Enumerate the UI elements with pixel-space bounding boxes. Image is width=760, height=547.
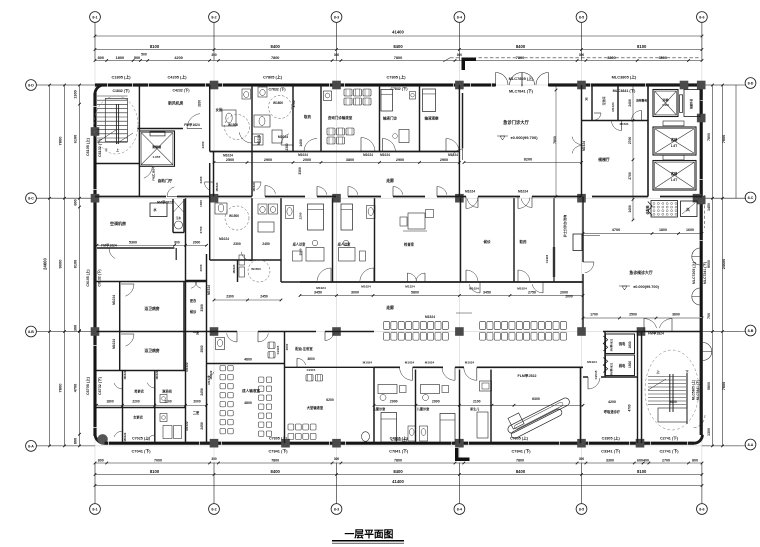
svg-text:C7832 (下): C7832 (下) (268, 87, 285, 92)
svg-text:FM甲1624: FM甲1624 (101, 243, 117, 248)
svg-text:M1022: M1022 (185, 421, 189, 431)
svg-text:C6105 (上): C6105 (上) (85, 137, 90, 156)
svg-text:7800: 7800 (722, 135, 726, 143)
svg-text:3700: 3700 (292, 100, 296, 107)
svg-text:3300: 3300 (606, 459, 614, 463)
svg-text:4800: 4800 (244, 401, 252, 405)
svg-text:护士分诊台/咨询: 护士分诊台/咨询 (562, 215, 567, 238)
svg-text:成人诊室: 成人诊室 (338, 242, 352, 247)
svg-text:8-2: 8-2 (211, 15, 216, 19)
svg-text:风: 风 (585, 96, 588, 101)
svg-text:24600: 24600 (43, 258, 48, 270)
svg-text:取药: 取药 (304, 114, 312, 119)
svg-text:8-3: 8-3 (334, 507, 339, 511)
svg-text:FLM甲J522: FLM甲J522 (518, 373, 537, 378)
svg-text:2200: 2200 (132, 399, 140, 403)
svg-text:1.6T: 1.6T (671, 178, 677, 182)
svg-text:2900: 2900 (264, 158, 272, 162)
svg-text:800: 800 (174, 241, 180, 245)
svg-text:8400: 8400 (393, 44, 403, 49)
svg-text:M1024: M1024 (316, 286, 326, 290)
svg-text:7800: 7800 (58, 136, 63, 146)
svg-text:2000: 2000 (199, 264, 203, 271)
svg-text:消梯候: 消梯候 (152, 144, 162, 149)
svg-text:输液观察: 输液观察 (425, 116, 439, 121)
svg-text:C7025 (上): C7025 (上) (132, 435, 151, 440)
svg-text:FM甲0822: FM甲0822 (610, 362, 614, 375)
svg-text:1800: 1800 (628, 341, 632, 348)
svg-text:FM甲1824: FM甲1824 (648, 331, 664, 336)
svg-text:8-B: 8-B (748, 329, 754, 333)
svg-text:2200: 2200 (299, 212, 303, 219)
svg-text:3200: 3200 (198, 100, 202, 107)
svg-text:C3341 (下): C3341 (下) (601, 448, 621, 453)
svg-text:C7841 (下): C7841 (下) (511, 448, 531, 453)
svg-text:污水: 污水 (176, 216, 182, 220)
svg-text:7800: 7800 (394, 56, 402, 60)
svg-text:C4232 (下): C4232 (下) (172, 88, 189, 93)
svg-text:1400: 1400 (628, 205, 632, 213)
svg-text:C6105 (上): C6105 (上) (85, 269, 90, 286)
svg-text:M1024: M1024 (363, 361, 373, 365)
svg-text:急诊候诊大厅: 急诊候诊大厅 (629, 270, 652, 275)
svg-text:800: 800 (98, 56, 104, 60)
svg-text:2900: 2900 (432, 399, 440, 403)
svg-text:3600: 3600 (669, 400, 677, 404)
svg-text:C2741 (下): C2741 (下) (660, 435, 679, 440)
svg-text:5300: 5300 (129, 241, 137, 245)
svg-text:C2015: C2015 (594, 370, 598, 379)
svg-text:C2741 (下): C2741 (下) (659, 448, 679, 453)
svg-text:5800: 5800 (411, 291, 419, 295)
svg-text:2700: 2700 (199, 226, 203, 233)
svg-text:C7841 (下): C7841 (下) (389, 448, 409, 453)
svg-text:800: 800 (692, 459, 698, 463)
svg-text:4700: 4700 (74, 384, 78, 392)
svg-text:8-1: 8-1 (92, 15, 97, 19)
svg-text:2300: 2300 (201, 141, 205, 148)
svg-text:C6132 (下): C6132 (下) (97, 269, 102, 286)
svg-text:M1024: M1024 (232, 264, 236, 273)
svg-text:4200: 4200 (174, 56, 182, 60)
svg-text:FM甲1624: FM甲1624 (184, 122, 200, 127)
svg-text:8400: 8400 (516, 469, 526, 474)
svg-text:M1024: M1024 (257, 135, 261, 145)
svg-text:二更: 二更 (193, 410, 200, 415)
svg-text:更衣: 更衣 (190, 298, 197, 303)
svg-text:C7832 (下): C7832 (下) (390, 86, 407, 91)
svg-text:1450: 1450 (707, 203, 711, 211)
svg-text:M1524: M1524 (620, 122, 629, 126)
svg-text:5800: 5800 (707, 382, 711, 390)
svg-text:8-5: 8-5 (579, 507, 584, 511)
svg-text:M1024: M1024 (465, 190, 475, 194)
svg-text:2500: 2500 (629, 313, 637, 317)
svg-text:M1524: M1524 (425, 315, 435, 319)
svg-text:输液门诊: 输液门诊 (383, 116, 397, 121)
svg-text:2500: 2500 (226, 158, 234, 162)
svg-text:1.05t: 1.05t (662, 103, 669, 107)
svg-text:检查室: 检查室 (404, 242, 415, 247)
svg-text:3000: 3000 (351, 291, 359, 295)
svg-text:1600: 1600 (686, 228, 694, 232)
svg-text:W1500: W1500 (228, 123, 238, 127)
svg-text:客梯: 客梯 (670, 137, 678, 142)
svg-text:6100: 6100 (74, 135, 78, 143)
svg-text:7800: 7800 (707, 133, 711, 141)
svg-text:8-5: 8-5 (579, 15, 584, 19)
svg-text:消梯: 消梯 (662, 97, 668, 102)
svg-text:8400: 8400 (516, 44, 526, 49)
svg-text:M1524: M1524 (207, 285, 211, 295)
svg-text:M1024: M1024 (219, 237, 229, 241)
svg-text:8-D: 8-D (748, 81, 754, 85)
svg-text:M1024: M1024 (448, 153, 458, 157)
svg-text:8-1: 8-1 (92, 507, 97, 511)
svg-text:M1024: M1024 (112, 295, 116, 305)
svg-text:8-6: 8-6 (699, 15, 704, 19)
svg-text:9000: 9000 (58, 259, 63, 269)
svg-text:C2115: C2115 (307, 368, 316, 372)
svg-text:2700: 2700 (628, 137, 632, 145)
svg-text:FM甲0822: FM甲0822 (157, 200, 173, 205)
svg-text:8100: 8100 (637, 469, 647, 474)
svg-text:M1324: M1324 (405, 285, 415, 289)
svg-text:M1024: M1024 (380, 153, 390, 157)
svg-text:C7805 (上): C7805 (上) (386, 74, 406, 79)
svg-text:信报箱: 信报箱 (645, 205, 650, 214)
svg-text:水: 水 (152, 207, 157, 212)
svg-text:±0.000(99.700): ±0.000(99.700) (633, 285, 659, 289)
svg-text:41400: 41400 (392, 479, 404, 484)
svg-text:浴卫病房: 浴卫病房 (144, 306, 159, 311)
svg-text:MLC7205 (上): MLC7205 (上) (691, 262, 696, 284)
svg-text:2300: 2300 (199, 176, 203, 183)
svg-text:8100: 8100 (150, 44, 160, 49)
svg-text:新生儿: 新生儿 (470, 406, 479, 411)
svg-text:2900: 2900 (396, 158, 404, 162)
svg-text:2000: 2000 (193, 241, 201, 245)
svg-text:2100: 2100 (473, 399, 481, 403)
svg-text:3450: 3450 (483, 291, 491, 295)
svg-text:W1800: W1800 (273, 101, 283, 105)
svg-text:男更衣: 男更衣 (134, 389, 144, 394)
svg-text:C7041 (下): C7041 (下) (131, 448, 151, 453)
svg-text:8-D: 8-D (28, 83, 34, 87)
svg-text:8100: 8100 (637, 44, 647, 49)
svg-text:8200: 8200 (524, 158, 532, 162)
svg-text:8-4: 8-4 (457, 15, 462, 19)
svg-text:M1024: M1024 (465, 361, 475, 365)
svg-text:污洗间: 污洗间 (601, 97, 606, 106)
svg-text:9000: 9000 (707, 260, 711, 268)
svg-text:4700: 4700 (628, 404, 632, 411)
svg-text:新风机房: 新风机房 (168, 101, 183, 106)
svg-text:300: 300 (211, 457, 217, 461)
svg-text:7800: 7800 (271, 459, 279, 463)
svg-text:2300: 2300 (285, 143, 289, 150)
svg-text:弱电: 弱电 (619, 363, 626, 368)
svg-text:急诊门诊大厅: 急诊门诊大厅 (503, 119, 529, 126)
svg-text:8400: 8400 (271, 44, 281, 49)
svg-text:2900: 2900 (440, 158, 448, 162)
svg-text:大堂输液室: 大堂输液室 (307, 405, 324, 410)
svg-text:W1500: W1500 (251, 267, 261, 271)
svg-text:8400: 8400 (271, 469, 281, 474)
svg-text:呼吸道诊疗: 呼吸道诊疗 (604, 409, 621, 414)
svg-text:M1524: M1524 (582, 141, 586, 151)
svg-text:8-4: 8-4 (457, 507, 462, 511)
svg-text:8-A: 8-A (748, 443, 754, 447)
svg-text:2450: 2450 (260, 295, 268, 299)
svg-text:8-3: 8-3 (334, 15, 339, 19)
svg-text:强电: 强电 (619, 341, 626, 346)
svg-text:4200: 4200 (608, 400, 616, 404)
svg-text:2450: 2450 (262, 242, 270, 246)
svg-text:M1022: M1022 (185, 362, 189, 372)
svg-text:成人输液室: 成人输液室 (242, 388, 260, 393)
svg-text:600: 600 (74, 199, 78, 205)
svg-text:M1022: M1022 (123, 432, 127, 441)
svg-text:C1805 (上): C1805 (上) (111, 74, 131, 79)
svg-text:M1024: M1024 (587, 360, 597, 364)
svg-text:8-C: 8-C (28, 197, 34, 201)
svg-text:M1024: M1024 (112, 339, 116, 349)
svg-text:M1022: M1022 (123, 370, 127, 379)
svg-text:C1832 (下): C1832 (下) (112, 88, 129, 93)
svg-text:2100: 2100 (164, 399, 172, 403)
svg-text:M1022: M1022 (155, 370, 159, 379)
svg-text:3450: 3450 (314, 291, 322, 295)
svg-text:1800: 1800 (106, 399, 114, 403)
svg-text:3500: 3500 (299, 248, 303, 255)
svg-text:1400: 1400 (299, 139, 303, 147)
svg-text:7800: 7800 (58, 383, 63, 393)
svg-text:M1024: M1024 (405, 361, 415, 365)
svg-text:女更衣: 女更衣 (133, 415, 143, 420)
svg-text:2700: 2700 (628, 172, 632, 180)
svg-text:空调机房: 空调机房 (110, 220, 126, 226)
svg-text:1700: 1700 (590, 313, 598, 317)
svg-text:2000: 2000 (303, 158, 311, 162)
svg-text:3600: 3600 (285, 343, 289, 350)
svg-text:M1024: M1024 (361, 285, 371, 289)
svg-text:W1500: W1500 (229, 214, 239, 218)
svg-text:2300: 2300 (233, 242, 241, 246)
svg-text:M1024: M1024 (363, 153, 373, 157)
svg-text:8100: 8100 (150, 469, 160, 474)
svg-text:8-6: 8-6 (699, 507, 704, 511)
svg-text:候梯厅: 候梯厅 (598, 157, 610, 162)
svg-text:走廊: 走廊 (385, 178, 394, 183)
svg-text:储藏井道: 储藏井道 (689, 99, 693, 110)
svg-text:7800: 7800 (394, 459, 402, 463)
svg-text:一层平面图: 一层平面图 (345, 529, 394, 541)
svg-text:M1024: M1024 (517, 287, 527, 291)
svg-text:800: 800 (98, 459, 104, 463)
svg-text:3800: 3800 (346, 158, 354, 162)
svg-text:2900: 2900 (390, 399, 398, 403)
svg-text:消物警务: 消物警务 (636, 98, 648, 103)
svg-text:走廊: 走廊 (385, 305, 394, 310)
svg-text:400: 400 (643, 459, 649, 463)
svg-text:1000: 1000 (199, 200, 203, 207)
svg-text:3600: 3600 (672, 313, 680, 317)
svg-text:7800: 7800 (553, 136, 557, 144)
svg-text:成人诊室: 成人诊室 (293, 242, 307, 247)
svg-text:MLC3841 (下): MLC3841 (下) (613, 88, 637, 93)
svg-text:取药: 取药 (520, 239, 528, 244)
svg-text:6200: 6200 (326, 398, 334, 402)
svg-text:候诊: 候诊 (190, 309, 197, 314)
svg-text:1500: 1500 (628, 361, 632, 368)
svg-text:配血.注射室: 配血.注射室 (295, 346, 313, 351)
svg-text:C7841 (下): C7841 (下) (268, 448, 288, 453)
svg-text:2450: 2450 (200, 388, 204, 396)
svg-text:M1524: M1524 (215, 182, 219, 191)
svg-text:FM乙1624: FM乙1624 (151, 167, 156, 181)
svg-text:儿童诊室: 儿童诊室 (416, 406, 429, 411)
svg-text:儿童诊室: 儿童诊室 (372, 406, 385, 411)
svg-text:300: 300 (579, 457, 585, 461)
svg-text:一更: 一更 (193, 330, 200, 335)
svg-text:M1024: M1024 (611, 102, 615, 112)
svg-text:MLC3805 (上): MLC3805 (上) (612, 74, 637, 79)
svg-text:2700: 2700 (662, 459, 670, 463)
svg-text:8-2: 8-2 (211, 507, 216, 511)
svg-text:500: 500 (134, 56, 140, 60)
svg-text:24600: 24600 (722, 259, 726, 270)
svg-text:1.65T: 1.65T (153, 155, 161, 159)
svg-text:C7805 (上): C7805 (上) (391, 437, 407, 442)
svg-text:M1524: M1524 (252, 182, 256, 191)
svg-text:C7805 (上): C7805 (上) (263, 74, 283, 79)
svg-text:C4205 (上): C4205 (上) (167, 74, 187, 79)
svg-text:8-B: 8-B (28, 330, 34, 334)
svg-text:800: 800 (74, 438, 78, 444)
svg-text:8400: 8400 (393, 469, 403, 474)
svg-text:41400: 41400 (392, 30, 404, 35)
svg-text:4700: 4700 (612, 228, 620, 232)
svg-text:自助门厅: 自助门厅 (158, 178, 173, 183)
svg-text:1300: 1300 (74, 90, 78, 98)
svg-text:M1024: M1024 (223, 154, 233, 158)
svg-text:候诊: 候诊 (484, 239, 492, 244)
svg-text:700: 700 (707, 313, 711, 319)
svg-text:C2115: C2115 (545, 254, 549, 263)
svg-text:3300: 3300 (200, 304, 204, 312)
svg-text:8-C: 8-C (748, 196, 754, 200)
svg-text:咨询门诊输液室: 咨询门诊输液室 (328, 115, 353, 120)
svg-text:300: 300 (74, 325, 78, 331)
svg-text:4800: 4800 (244, 358, 252, 362)
svg-text:3300: 3300 (298, 167, 302, 175)
svg-text:C2115: C2115 (276, 345, 280, 354)
svg-text:C6732 (下): C6732 (下) (97, 376, 102, 395)
svg-text:500: 500 (141, 53, 147, 57)
svg-text:2900: 2900 (200, 345, 204, 352)
svg-text:1300: 1300 (707, 428, 711, 436)
svg-text:M1024: M1024 (469, 287, 479, 291)
svg-text:1800: 1800 (659, 228, 667, 232)
svg-text:M1024: M1024 (298, 153, 308, 157)
svg-text:3600: 3600 (307, 357, 315, 361)
svg-text:8-A: 8-A (28, 444, 34, 448)
svg-text:1800: 1800 (116, 56, 124, 60)
svg-text:2750: 2750 (528, 291, 536, 295)
svg-text:浴卫病房: 浴卫病房 (144, 348, 159, 353)
svg-text:2400: 2400 (628, 99, 632, 107)
svg-text:1.6T: 1.6T (671, 144, 677, 148)
svg-text:2450: 2450 (200, 422, 204, 430)
svg-text:M1024: M1024 (278, 135, 288, 139)
svg-text:6300: 6300 (532, 397, 540, 401)
svg-text:MLC5805 (上): MLC5805 (上) (691, 380, 696, 400)
svg-text:8100: 8100 (74, 260, 78, 268)
svg-text:客梯: 客梯 (670, 171, 678, 176)
svg-text:7800: 7800 (722, 382, 726, 390)
svg-text:C3305 (上): C3305 (上) (602, 435, 621, 440)
svg-text:7800: 7800 (271, 56, 279, 60)
svg-text:±0.000(99.700): ±0.000(99.700) (510, 135, 538, 140)
svg-text:2300: 2300 (226, 295, 234, 299)
svg-text:FM甲0822: FM甲0822 (610, 338, 614, 351)
svg-text:M1024: M1024 (518, 190, 528, 194)
svg-text:7000: 7000 (154, 459, 162, 463)
svg-text:M1024: M1024 (425, 361, 435, 365)
svg-text:300: 300 (334, 457, 340, 461)
svg-text:2000: 2000 (193, 399, 201, 403)
svg-text:女厕: 女厕 (216, 107, 223, 112)
svg-text:MLC7841 (下): MLC7841 (下) (509, 89, 534, 94)
svg-text:淋浴间: 淋浴间 (162, 389, 172, 394)
svg-text:2000: 2000 (565, 295, 573, 299)
svg-text:7800: 7800 (516, 459, 524, 463)
svg-text:C6705 (上): C6705 (上) (85, 376, 90, 395)
